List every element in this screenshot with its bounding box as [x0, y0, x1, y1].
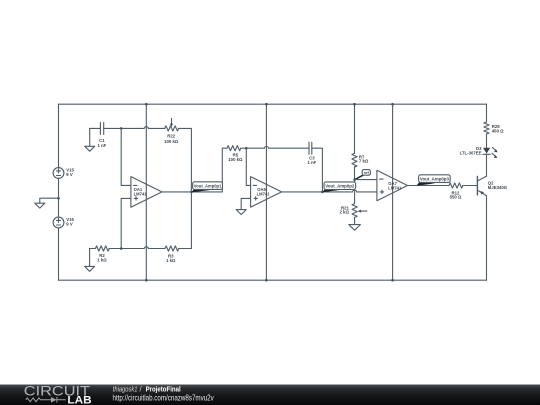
svg-text:550 Ω: 550 Ω: [450, 194, 462, 199]
resistor R7: [352, 153, 369, 167]
wire left rail lower: [58, 228, 60, 280]
svg-text:Vout_Amp0p2: Vout_Amp0p2: [325, 184, 354, 189]
wire divider node down to R21: [354, 180, 356, 204]
wire divider node to OA7 minus: [355, 179, 377, 181]
svg-text:http://circuitlab.com/cnazw8s7: http://circuitlab.com/cnazw8s7mvu2v: [113, 393, 215, 402]
wire C1 left: [90, 127, 101, 129]
wire R2 to R3 with hop: [109, 248, 165, 250]
wire bottom rail: [59, 279, 487, 281]
svg-text:7 kΩ: 7 kΩ: [359, 158, 369, 163]
footer title thiagosk1 / ProjetoFinal: [113, 384, 181, 393]
wire OA5 output to OA7 plus with hop: [282, 191, 377, 193]
transistor Q2 MJE340G: [477, 176, 507, 195]
node top rail OA1: [145, 103, 148, 106]
svg-text:LM741: LM741: [257, 191, 271, 196]
svg-text:100 kΩ: 100 kΩ: [164, 139, 179, 144]
ground for C1: [85, 128, 95, 151]
wire R3 right up to output node: [179, 248, 192, 250]
wire OA1 plus input: [121, 198, 131, 248]
ground at supply midpoint: [35, 203, 45, 208]
node R2-R3 junction: [120, 247, 123, 250]
wire R21 to ground: [354, 217, 356, 224]
wire top rail: [59, 103, 487, 105]
ground at OA5 plus: [236, 210, 246, 215]
svg-text:1 nF: 1 nF: [97, 143, 106, 148]
resistor R2: [95, 246, 109, 263]
flag tag Vout_Amp0p2: [322, 182, 355, 192]
LED D3 LTL-307EE: [460, 146, 498, 158]
node top rail OA5: [265, 103, 268, 106]
wire Q2 emitter to bottom rail: [486, 196, 488, 281]
wire R7 to divider node: [354, 167, 356, 180]
svg-text:450 Ω: 450 Ω: [492, 128, 504, 133]
wire OA7 output to R12: [408, 185, 450, 187]
wire OA5 plus to ground: [241, 198, 250, 209]
wire R29 to LED: [486, 134, 488, 148]
node C1-R22 to OA1 minus: [120, 127, 123, 130]
hop over OA5 power rail: [264, 147, 268, 149]
resistor R5: [227, 146, 243, 162]
wire C3 right then down: [312, 148, 323, 192]
node bottom rail OA7: [391, 279, 394, 282]
svg-text:9 V: 9 V: [66, 222, 73, 227]
voltage source V16: [53, 217, 74, 228]
node C3 meets OA5 output: [321, 191, 324, 194]
wire OA7 power rail: [392, 104, 394, 280]
node top rail R7: [353, 103, 356, 106]
wire ground to R2: [85, 249, 95, 272]
node R5-C3-OA5minus: [245, 147, 248, 150]
footer bar: [0, 385, 540, 405]
svg-text:LAB: LAB: [67, 394, 92, 405]
node OA1 output: [190, 191, 193, 194]
resistor R12: [449, 183, 463, 199]
svg-text:C1: C1: [99, 138, 105, 143]
svg-text:ProjetoFinal: ProjetoFinal: [146, 384, 181, 393]
svg-text:2 kΩ: 2 kΩ: [339, 209, 349, 214]
wire R22 right then down to output node: [179, 128, 192, 192]
svg-text:LTL-307EE: LTL-307EE: [460, 150, 482, 155]
wire output node to R5 riser: [191, 148, 227, 192]
op-amp OA5 LM741: [251, 177, 282, 208]
flag tag Vout_Amp0p1: [191, 182, 222, 193]
flag tag ref: [355, 170, 370, 180]
svg-text:1 kΩ: 1 kΩ: [97, 258, 107, 263]
capacitor C3: [307, 142, 316, 165]
ground below R21: [349, 225, 361, 231]
wire OA1 minus input: [121, 128, 131, 185]
svg-text:9 V: 9 V: [66, 172, 73, 177]
wire output down to R3: [190, 192, 192, 249]
wire top rail to R7: [354, 104, 356, 153]
wire node to C3 with hop: [246, 147, 309, 149]
potentiometer R22: [164, 118, 179, 143]
svg-text:Vout_Amp0p1: Vout_Amp0p1: [194, 184, 222, 189]
wire C1 to R22 with hop: [104, 127, 165, 129]
svg-text:LM741: LM741: [134, 191, 148, 196]
svg-text:thiagosk1: thiagosk1: [113, 384, 138, 393]
wire to left ground: [40, 198, 59, 203]
node divider ref: [353, 178, 356, 181]
op-amp OA7 LM741: [377, 170, 408, 201]
resistor R3: [165, 246, 179, 263]
wire LED to Q2 collector: [486, 154, 488, 176]
svg-text:Vout_Amp0p3: Vout_Amp0p3: [420, 177, 449, 182]
node bottom rail OA5: [265, 279, 268, 282]
node top rail OA7: [391, 103, 394, 106]
wire R2 left: [90, 248, 96, 250]
node bottom rail OA1: [145, 279, 148, 282]
resistor R29: [484, 122, 504, 134]
svg-text:LM741: LM741: [388, 186, 402, 191]
wire OA1 output: [162, 191, 192, 193]
svg-text:1 kΩ: 1 kΩ: [166, 258, 176, 263]
wire left rail upper: [58, 104, 60, 167]
hop over OA1 power rail at bottom wire: [144, 247, 148, 249]
wire R5 to node: [241, 147, 247, 149]
wire right rail top to R29: [486, 104, 488, 122]
capacitor C1: [97, 122, 106, 148]
wire R12 to Q2 base: [463, 185, 478, 187]
svg-text:R22: R22: [167, 134, 175, 139]
node between V15 and V16: [57, 197, 60, 200]
potentiometer R21: [339, 204, 366, 218]
svg-text:100 kΩ: 100 kΩ: [228, 157, 243, 162]
hop over R7-R21 line: [353, 190, 357, 192]
op-amp OA1 LM741: [131, 177, 162, 208]
wire OA1 power rail: [145, 104, 147, 280]
svg-text:ref: ref: [364, 170, 370, 175]
hop over OA1 power rail: [144, 127, 148, 129]
wire node down to OA5 minus: [246, 148, 250, 185]
svg-text:MJE340G: MJE340G: [488, 185, 508, 190]
wire OA5 power rail: [265, 104, 267, 280]
flag tag Vout_Amp0p3: [416, 175, 450, 186]
voltage source V15: [53, 168, 74, 179]
logo resistor-diode glyph: [26, 397, 66, 403]
wire between sources: [58, 178, 60, 217]
svg-text:1 nF: 1 nF: [307, 160, 316, 165]
